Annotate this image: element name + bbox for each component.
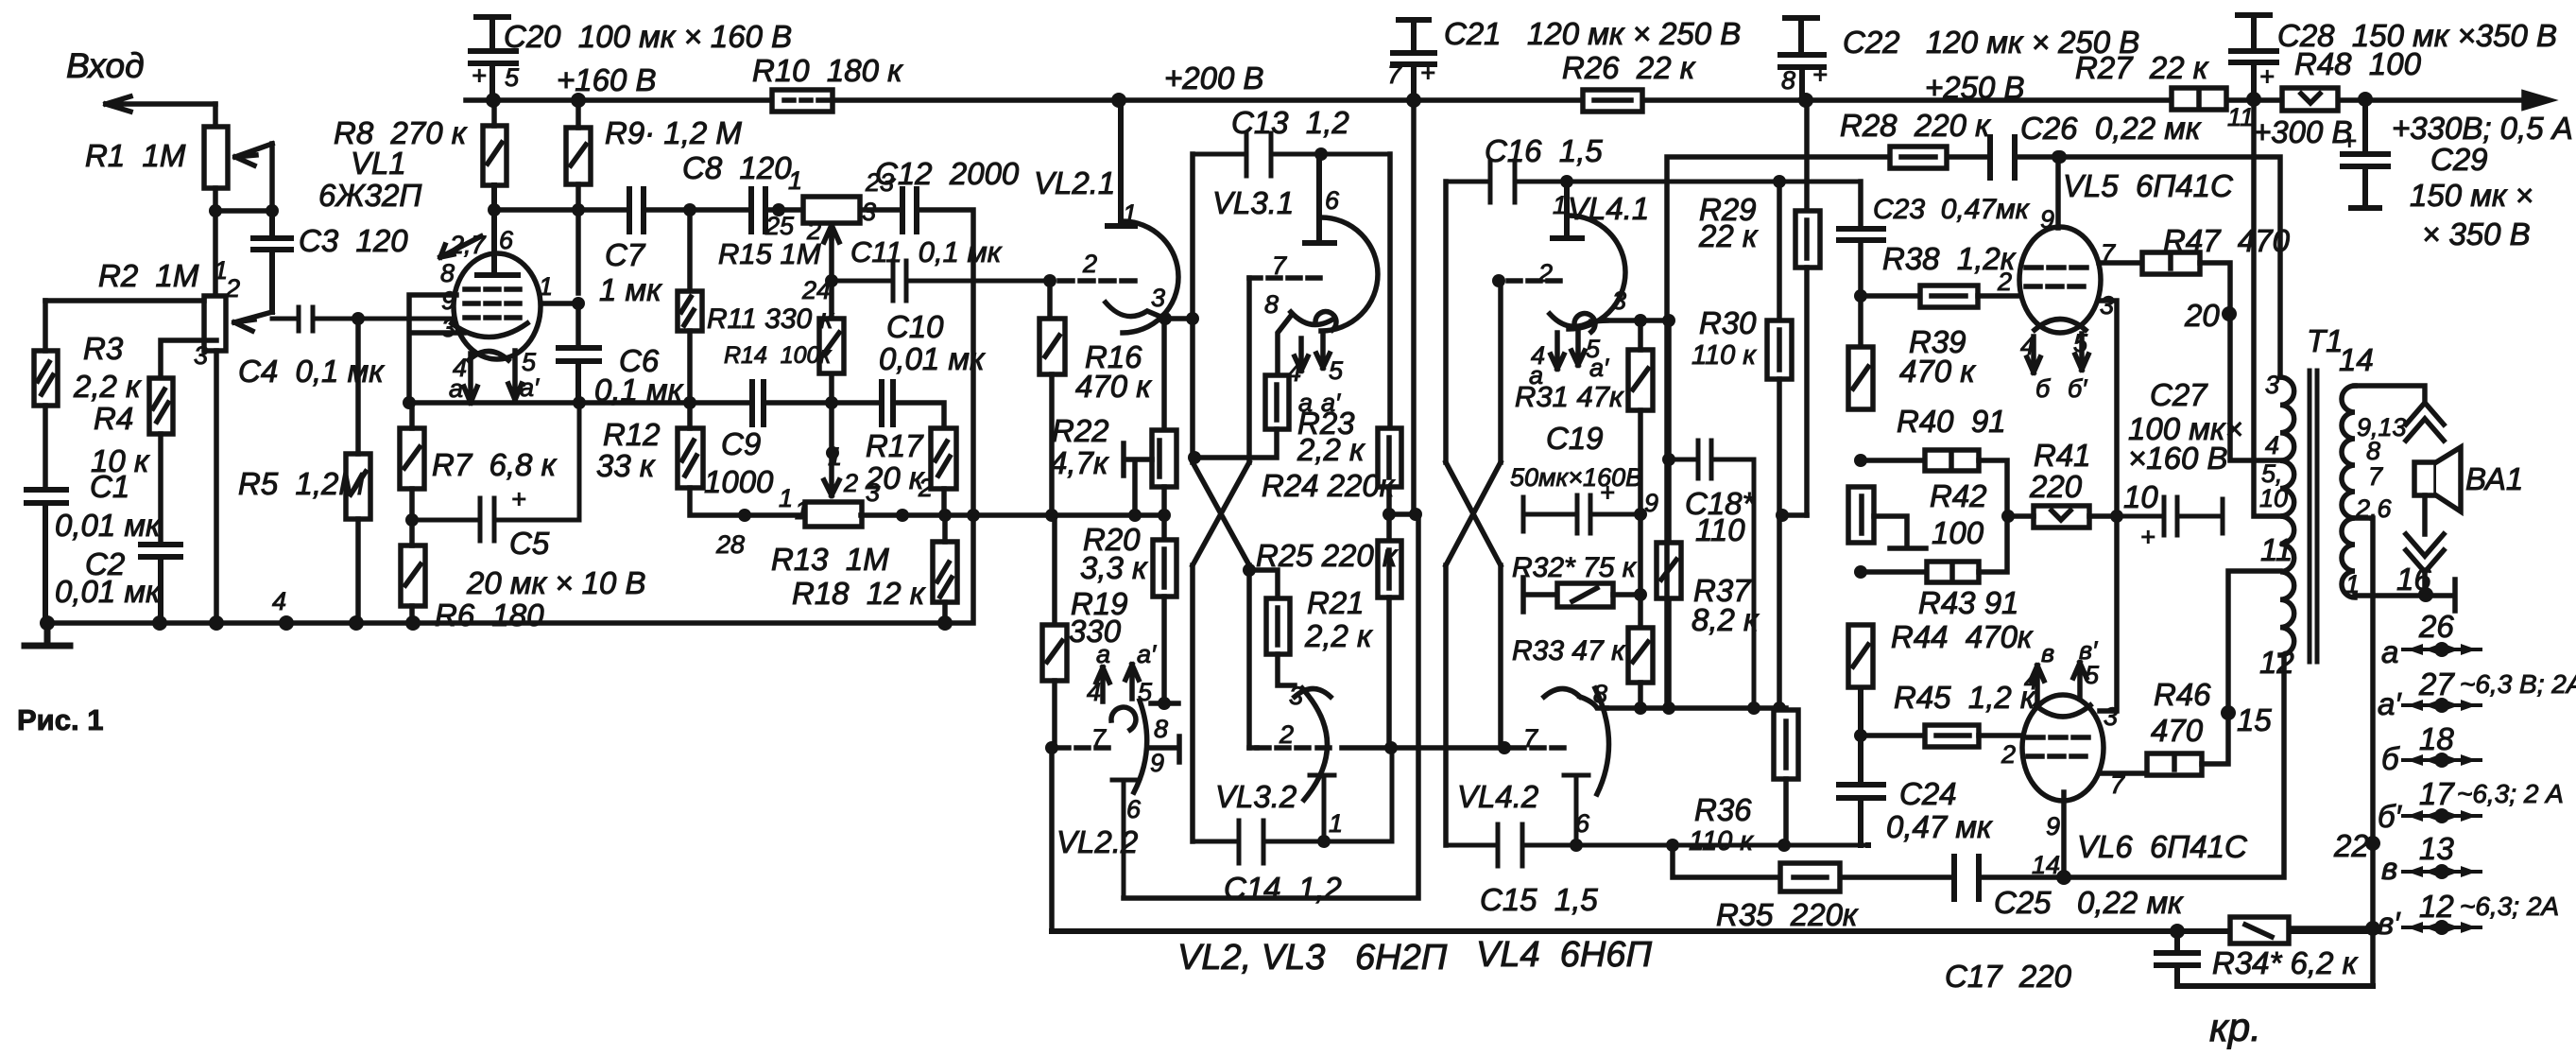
svg-text:+: + [472,61,487,90]
wire VL4.1 grid supply line y192 to R38 column [1858,182,1863,347]
svg-text:5: 5 [2085,661,2100,689]
svg-text:6Ж32П: 6Ж32П [318,178,421,213]
resistor R24 [1378,154,1401,514]
wire VL5 pin3 column [2099,301,2117,711]
svg-text:6: 6 [1126,795,1142,823]
wire VL4.1 pin3 row [1606,318,1669,323]
svg-text:VL5 6П41С: VL5 6П41С [2063,168,2234,203]
svg-text:R12: R12 [603,417,661,452]
svg-text:+: + [2140,523,2155,551]
svg-text:470 к: 470 к [1075,369,1152,404]
svg-text:R6 180: R6 180 [435,597,544,632]
capacitor C1 [26,490,66,623]
potentiometer R2 [204,296,272,351]
wire secondary bottom line [2355,580,2455,611]
svg-text:R27 22 к: R27 22 к [2075,50,2209,85]
svg-text:8: 8 [1781,66,1795,95]
svg-text:R34* 6,2 к: R34* 6,2 к [2212,945,2359,980]
potentiometer R1 [204,127,272,188]
resistor R18 [933,515,957,623]
resistor R12 [678,401,805,515]
svg-text:2: 2 [918,474,933,502]
svg-text:С3 120: С3 120 [299,223,408,258]
svg-text:7: 7 [1387,61,1402,89]
wire top bus arrowhead [2524,93,2550,108]
capacitor C14 [1194,748,1392,863]
svg-text:R11 330 к: R11 330 к [707,303,835,335]
wire C21 +200V column [1411,100,1417,514]
svg-text:R42: R42 [1930,478,1987,513]
svg-text:С19: С19 [1546,421,1604,456]
svg-text:С9: С9 [721,426,761,461]
resistor R31 [1628,320,1653,628]
resistor R44 [1848,625,1873,687]
svg-text:3: 3 [1289,682,1303,710]
cross X2 [1446,462,1501,565]
svg-text:С21 120 мк × 250 В: С21 120 мк × 250 В [1444,16,1741,51]
svg-text:1: 1 [795,496,809,525]
svg-text:VL2.2: VL2.2 [1056,824,1138,859]
svg-text:R17: R17 [866,428,924,463]
svg-text:а: а [1529,361,1543,390]
capacitor C6 [558,348,599,403]
svg-text:R1 1М: R1 1М [85,138,186,173]
svg-text:16: 16 [2396,562,2431,597]
tube VL3.1 [1249,154,1378,375]
svg-text:С12 2000: С12 2000 [875,156,1020,191]
capacitor C10 [882,382,893,424]
tube VL2.1 [1059,100,1178,333]
svg-text:4: 4 [1087,678,1101,706]
resistor R6 [401,520,425,623]
capacitor C26 [1990,137,2015,178]
svg-text:в′: в′ [2378,906,2401,941]
resistor R28 [1890,147,1947,168]
svg-text:23: 23 [865,168,894,197]
svg-text:+: + [1812,61,1828,89]
capacitor C11 [832,261,1050,301]
svg-text:С4 0,1 мк: С4 0,1 мк [238,354,385,389]
svg-text:7: 7 [1091,724,1107,753]
svg-text:14: 14 [2032,851,2060,879]
wire VL2.2 cathode line [1124,514,1418,898]
resistor R43 [1861,516,2007,582]
resistor R37 [1657,543,1681,598]
svg-text:110 к: 110 к [1692,340,1757,371]
svg-text:5: 5 [1138,678,1153,706]
svg-text:100: 100 [1932,515,1984,550]
svg-text:R15 1М: R15 1М [718,237,821,270]
svg-text:1: 1 [1329,809,1343,838]
svg-text:R2 1М: R2 1М [98,258,199,293]
svg-text:4,7к: 4,7к [1050,445,1109,480]
svg-text:~6,3; 2А: ~6,3; 2А [2460,892,2559,921]
resistor R27 on bus [2172,88,2226,110]
svg-text:3: 3 [1612,286,1626,315]
svg-text:20 мк × 10 В: 20 мк × 10 В [466,565,646,600]
wire X2 right column [1498,281,1503,748]
svg-text:в: в [2041,639,2054,667]
svg-text:С16 1,5: С16 1,5 [1485,133,1603,168]
wire R1 wiper/bottom node [215,144,272,296]
wire feedback end vertical [2289,926,2373,931]
svg-text:8: 8 [1154,715,1168,743]
wire VL3.2 grid row [1249,745,1504,751]
tube VL4.2 [1512,688,1609,845]
svg-text:2: 2 [2001,740,2016,769]
svg-text:+: + [1600,478,1615,507]
wire VL1 anode pin1 [537,303,578,348]
svg-text:б′: б′ [2068,374,2087,403]
svg-text:R41: R41 [2034,438,2091,473]
resistor R3 [34,301,58,490]
svg-text:VL3.2: VL3.2 [1215,779,1297,814]
svg-text:× 350 В: × 350 В [2422,216,2531,251]
wire R35 line [1673,655,2284,877]
capacitor C18 box [1662,320,1754,708]
svg-text:~6,3 В; 2А: ~6,3 В; 2А [2460,669,2576,699]
resistor R38 [1861,286,2022,307]
svg-text:50мк×160В: 50мк×160В [1510,463,1642,492]
wire secondary top to speaker [2355,386,2425,401]
svg-text:9,13: 9,13 [2357,413,2407,441]
svg-text:VL3.1: VL3.1 [1212,185,1294,220]
svg-text:0,01 мк: 0,01 мк [55,574,162,609]
svg-text:3: 3 [1151,284,1165,312]
svg-text:+: + [2259,62,2275,91]
svg-text:VL2, VL3 6Н2П: VL2, VL3 6Н2П [1177,938,1448,978]
wire VL2.2 grid feedback column [1049,748,1055,931]
wire +300V column to taps [2254,99,2280,516]
tube VL3.2 [1257,688,1334,841]
wire screen line y222 [494,210,973,515]
svg-text:С10: С10 [886,309,944,344]
svg-text:VL6 6П41С: VL6 6П41С [2077,829,2248,864]
svg-text:+250 В: +250 В [1925,70,2025,105]
svg-text:б′: б′ [2378,799,2403,834]
svg-text:R3: R3 [83,331,124,366]
svg-text:С13 1,2: С13 1,2 [1231,105,1349,140]
wire R14 column to R13 wiper [824,238,839,495]
svg-text:8: 8 [1593,680,1607,708]
svg-text:330: 330 [1069,614,1122,649]
svg-text:25: 25 [764,212,795,240]
svg-text:а: а [1298,389,1313,417]
svg-text:1: 1 [539,272,553,301]
svg-text:2: 2 [1997,268,2012,296]
resistor R8 [483,100,507,274]
wire R2 left branch [45,298,204,303]
svg-text:R40 91: R40 91 [1897,404,2006,439]
svg-text:R7 6,8 к: R7 6,8 к [432,447,558,482]
svg-text:110: 110 [1695,512,1745,547]
svg-text:С24: С24 [1899,776,1957,811]
svg-text:в: в [2381,851,2397,886]
wire R2 to ground [214,351,219,623]
svg-text:С14 1,2: С14 1,2 [1224,871,1342,906]
tube VL2.2 [1056,665,1179,898]
svg-text:~6,3; 2 А: ~6,3; 2 А [2457,779,2564,808]
capacitor C20 [471,17,516,100]
svg-text:VL4.1: VL4.1 [1568,191,1649,226]
svg-text:5: 5 [2073,329,2088,357]
svg-text:R14 100к: R14 100к [724,342,832,369]
capacitor C9 [752,382,764,424]
resistor R5 [346,319,370,623]
svg-text:150 мк ×: 150 мк × [2410,178,2533,213]
svg-text:×160 В: ×160 В [2128,441,2228,476]
svg-text:8: 8 [2366,437,2380,465]
resistor R48 [2282,88,2338,111]
svg-text:10: 10 [2259,484,2288,512]
capacitor C17 [2156,931,2373,986]
svg-text:б: б [2381,741,2400,776]
svg-text:1000: 1000 [704,464,774,499]
svg-text:R44 470к: R44 470к [1891,619,2034,654]
terminal a' [2403,700,2481,711]
svg-text:R46: R46 [2154,677,2211,712]
svg-text:R24 220к: R24 220к [1262,468,1396,503]
svg-text:4: 4 [2024,666,2038,695]
svg-text:С20 100 мк × 160 В: С20 100 мк × 160 В [504,19,792,54]
svg-text:R48 100: R48 100 [2294,46,2422,81]
svg-text:22: 22 [2333,828,2369,863]
svg-text:22 к: 22 к [1698,218,1759,253]
resistor R42 [1848,487,1926,548]
wire R11 column [687,210,693,291]
terminal b' [2403,810,2481,822]
svg-text:11: 11 [2260,532,2293,567]
resistor R25 [1378,541,1401,748]
potentiometer R15 [803,197,860,242]
resistor R46 [2102,571,2280,775]
wire row y426 C9 C10 [690,403,944,428]
svg-text:24: 24 [801,276,831,304]
ground symbol [25,623,70,646]
svg-text:+: + [2342,127,2357,155]
resistor R9 [566,100,591,293]
svg-text:R4: R4 [94,401,133,436]
svg-text:3: 3 [2104,702,2118,731]
transformer core [2310,371,2317,662]
tube VL6 [2022,663,2104,877]
svg-text:7: 7 [2368,462,2383,491]
svg-text:С26 0,22 мк: С26 0,22 мк [2020,111,2202,146]
svg-text:а′: а′ [520,373,540,402]
resistor R41 [2007,506,2117,528]
capacitor C24 [1839,687,1883,845]
capacitor C22 [1780,18,1824,100]
terminal a [2403,644,2481,655]
svg-text:7: 7 [1272,251,1287,280]
resistor R23 [1194,375,1289,458]
svg-text:R43 91: R43 91 [1918,585,2018,620]
svg-text:10: 10 [2123,479,2158,514]
capacitor C25 [1954,857,1979,899]
resistor R36 [1774,710,1798,845]
svg-text:С17 220: С17 220 [1945,959,2072,994]
svg-text:3: 3 [2100,291,2114,320]
resistor R22 with tap [1124,319,1176,515]
capacitor C16 line [1446,161,1861,202]
svg-text:R45 1,2 к: R45 1,2 к [1894,680,2036,715]
svg-text:2,7: 2,7 [449,231,487,259]
wire R24 R25 node [1389,514,1418,541]
svg-text:R5 1,2М: R5 1,2М [238,466,365,501]
resistor R7 [400,403,424,520]
resistor R30 [1767,182,1807,710]
transformer secondary [2342,386,2355,597]
resistor R19 [1042,515,1067,748]
svg-text:R36: R36 [1694,792,1752,827]
svg-text:VL4 6Н6П: VL4 6Н6П [1476,935,1652,975]
wire VL2 anode column x1262 [1190,154,1195,841]
svg-text:8,2 к: 8,2 к [1692,602,1760,637]
capacitor C5 [412,403,579,541]
svg-text:12: 12 [2259,645,2294,680]
svg-text:R47 470: R47 470 [2163,223,2291,258]
svg-text:9: 9 [2046,812,2060,840]
svg-text:0,1 мк: 0,1 мк [594,372,684,407]
svg-text:1: 1 [828,442,842,471]
svg-text:а: а [2381,634,2398,669]
resistor R11 [678,291,702,401]
svg-text:4: 4 [272,587,286,615]
svg-text:R9· 1,2 М: R9· 1,2 М [605,115,742,150]
wire top supply bus [466,97,2529,103]
svg-text:14: 14 [2339,342,2374,377]
svg-text:а: а [1096,640,1110,668]
svg-text:а′: а′ [1589,354,1609,382]
svg-text:+330В; 0,5 А: +330В; 0,5 А [2392,111,2573,146]
svg-text:1: 1 [788,166,802,195]
capacitor C15 line [1448,824,1868,866]
potentiometer R13 [805,502,1164,527]
node dots top bus [486,92,2373,108]
svg-text:С11 0,1 мк: С11 0,1 мк [850,235,1003,268]
speaker BA1 [2406,403,2461,595]
svg-text:15: 15 [2237,702,2272,737]
svg-text:4: 4 [2020,332,2035,360]
svg-text:9: 9 [441,286,455,315]
svg-text:а′: а′ [1137,640,1157,668]
resistor R29 [1795,100,1820,515]
svg-text:5: 5 [505,63,520,92]
svg-text:8: 8 [440,259,455,287]
svg-text:13: 13 [2419,831,2454,866]
wire VL3.1 grid column x1322 [1246,278,1252,748]
svg-text:R35 220к: R35 220к [1716,897,1859,932]
svg-text:R33 47 к: R33 47 к [1512,635,1626,666]
svg-text:R38 1,2к: R38 1,2к [1882,241,2017,276]
svg-text:3: 3 [194,341,208,370]
resistor R47 [2099,252,2280,460]
svg-text:6: 6 [1325,186,1340,215]
svg-text:7: 7 [1523,724,1538,753]
svg-text:б: б [2035,374,2051,403]
wire R28 C26 line [1667,157,2280,708]
svg-text:2: 2 [225,274,240,303]
svg-text:1: 1 [2345,570,2360,598]
resistor R4 [149,378,173,545]
tube VL4.1 [1508,182,1625,369]
wire pin8 row y749 [1606,705,1786,711]
capacitor C4 [272,307,455,331]
resistor R40 [1861,450,2007,516]
svg-text:Т1: Т1 [2307,323,2344,358]
capacitor C23 [1839,229,1883,240]
svg-text:470: 470 [2151,713,2204,748]
node dots ground bus [40,615,953,631]
svg-text:11: 11 [2227,103,2254,131]
transformer T1 primary [2280,377,2294,655]
resistor R10 on bus [772,90,833,112]
svg-text:С8 120: С8 120 [682,150,792,185]
svg-text:0,01 мк: 0,01 мк [879,341,986,376]
svg-text:+160 В: +160 В [557,62,657,97]
capacitor C8 [751,189,765,232]
svg-text:С15 1,5: С15 1,5 [1480,882,1598,917]
wire X2 left column [1443,182,1449,845]
wire secondary 2,6 tap [2355,518,2373,986]
svg-text:6: 6 [499,226,514,254]
resistor R39 [1848,347,1873,409]
svg-text:а: а [449,374,463,403]
resistor R26 on bus [1583,90,1642,112]
capacitor C3 [253,211,291,312]
svg-text:2: 2 [806,216,821,245]
svg-text:33 к: 33 к [596,448,656,483]
svg-text:470 к: 470 к [1899,354,1976,389]
terminal v' [2403,922,2481,933]
svg-text:R13 1М: R13 1М [771,542,889,577]
capacitor C13 loop [1193,133,1390,176]
svg-text:С5: С5 [509,526,550,561]
svg-text:20: 20 [2184,298,2220,333]
feedback long line [1052,928,2373,934]
svg-text:3,3 к: 3,3 к [1080,550,1148,585]
svg-text:9: 9 [2040,205,2054,234]
svg-text:7: 7 [2101,239,2116,268]
svg-text:R18 12 к: R18 12 к [792,576,926,611]
svg-text:2,2 к: 2,2 к [73,369,142,404]
svg-text:R21: R21 [1307,585,1365,620]
svg-text:110 к: 110 к [1689,826,1754,857]
svg-text:Вход: Вход [66,46,145,85]
wire output column x1970 nodes [1854,289,1867,742]
resistor R16 [1039,281,1065,515]
svg-text:а′: а′ [2378,686,2402,721]
svg-text:18: 18 [2419,721,2454,756]
wire VL2.1 pin3 row [1165,316,1193,321]
capacitor C27 [2117,497,2223,535]
svg-text:2: 2 [1279,720,1294,749]
capacitor C29 [2343,99,2388,208]
svg-text:С29: С29 [2430,142,2488,177]
svg-text:VL4.2: VL4.2 [1457,779,1538,814]
svg-text:R28 220 к: R28 220 к [1840,108,1991,143]
svg-text:3: 3 [2265,371,2279,399]
terminal v [2403,866,2481,877]
svg-text:8: 8 [1264,290,1279,319]
wire R4 branch [161,340,216,378]
resistor R14 [819,319,844,373]
svg-text:2: 2 [1537,259,1553,287]
resistor R21 [1249,570,1295,685]
capacitor C28 [2231,15,2276,99]
svg-text:2: 2 [1082,250,1097,278]
svg-text:2,2 к: 2,2 к [1297,432,1365,467]
